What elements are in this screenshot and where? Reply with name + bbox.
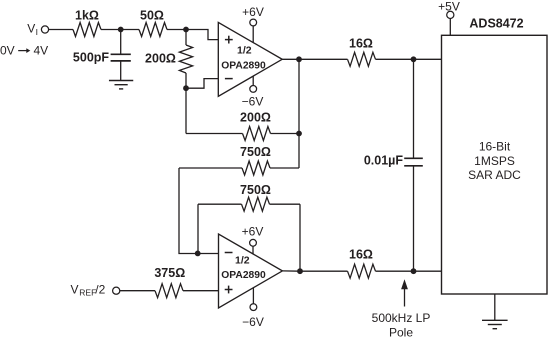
wire VI to R1	[49, 29, 73, 31]
wire R3 to node C	[185, 73, 187, 88]
wire R6 to right vertical	[270, 203, 301, 205]
label ADS8472	[469, 17, 523, 31]
wire U1b to -6V	[252, 288, 254, 304]
wire C2 to node J	[413, 166, 415, 271]
node F junction	[195, 251, 201, 257]
svg-text:50Ω: 50Ω	[140, 8, 164, 22]
capacitor C1 500pF	[111, 54, 131, 61]
U1b plus input mark	[225, 286, 233, 294]
label +6V U1a	[242, 5, 264, 19]
wire +6V to U1a	[252, 26, 254, 43]
svg-text:200Ω: 200Ω	[240, 110, 271, 124]
label VREF/2	[71, 282, 106, 297]
+5V terminal	[447, 11, 454, 18]
label U1b OPA2890	[221, 270, 266, 281]
node C junction	[183, 85, 189, 91]
svg-text:1kΩ: 1kΩ	[75, 8, 99, 22]
label 200&#937; feedback	[240, 110, 271, 124]
wire node D down	[298, 59, 300, 168]
svg-text:375Ω: 375Ω	[154, 266, 185, 280]
node A junction	[118, 27, 124, 33]
ground G1	[109, 81, 133, 89]
wire U1a output	[282, 58, 299, 60]
label 200&#937; shunt	[145, 52, 176, 66]
label 750&#937; lower	[240, 183, 271, 197]
node B junction	[183, 27, 189, 33]
label 16&#937; bottom	[349, 247, 373, 261]
svg-text:V: V	[71, 282, 79, 296]
U1a plus input mark	[225, 36, 233, 44]
ground G2	[482, 320, 508, 328]
wire node B to R3	[185, 30, 187, 46]
resistor R6 750&#937;	[242, 197, 270, 211]
label +6V U1b	[242, 224, 264, 238]
wire node C to opamp -	[186, 79, 218, 89]
op-amp U1a	[218, 22, 282, 96]
svg-text:−6V: −6V	[242, 315, 264, 329]
label 0V to 4V	[0, 44, 48, 58]
svg-text:1/2: 1/2	[235, 254, 250, 266]
label SAR ADC	[468, 168, 521, 182]
arrow 500kHz LP pole	[401, 279, 408, 306]
label 375&#937;	[154, 266, 185, 280]
wire node B to opamp +	[186, 30, 218, 40]
wire R5 to vertical	[270, 167, 299, 169]
svg-text:OPA2890: OPA2890	[221, 60, 266, 71]
wire node H to C2	[413, 59, 415, 158]
resistor R5 750&#937;	[242, 161, 270, 175]
U1a -6V terminal	[250, 86, 257, 93]
U1b minus input mark	[225, 252, 233, 254]
label 750&#937; upper	[240, 145, 271, 159]
svg-text:16Ω: 16Ω	[349, 247, 373, 261]
op-amp U1b	[219, 234, 283, 308]
node E junction	[296, 131, 302, 137]
node G junction U1b output	[297, 268, 303, 274]
label 500kHz LP	[372, 311, 431, 325]
svg-text:200Ω: 200Ω	[145, 52, 176, 66]
wire R8 to node H	[376, 58, 442, 60]
svg-text:V: V	[27, 22, 35, 36]
wire R6 left down to node F	[197, 204, 199, 253]
svg-text:500kHz LP: 500kHz LP	[372, 311, 431, 325]
svg-text:ADS8472: ADS8472	[469, 17, 523, 31]
label 0.01&#181;F	[364, 154, 404, 168]
svg-text:+6V: +6V	[242, 224, 264, 238]
capacitor C2 0.01uF	[404, 158, 423, 166]
svg-text:/2: /2	[95, 282, 105, 296]
label 1MSPS	[474, 154, 515, 168]
resistor R9 16&#937;	[348, 264, 376, 278]
svg-text:4V: 4V	[34, 44, 49, 58]
wire node C down	[185, 88, 187, 133]
input terminal VREF/2	[113, 287, 120, 294]
svg-text:I: I	[36, 27, 38, 37]
U1a minus input mark	[225, 78, 233, 80]
svg-text:0V: 0V	[0, 44, 15, 58]
label 50&#937;	[140, 8, 164, 22]
svg-text:OPA2890: OPA2890	[221, 270, 266, 281]
svg-text:0.01µF: 0.01µF	[364, 154, 404, 168]
wire U1b output	[282, 270, 300, 272]
label -6V U1b	[242, 315, 264, 329]
resistor R4 200&#937;	[243, 127, 271, 141]
label 1k&#937;	[75, 8, 99, 22]
resistor R2 50&#937;	[139, 23, 167, 37]
wire 750b left	[198, 203, 242, 205]
resistor R1 1k&#937;	[73, 23, 101, 37]
resistor R3 200&#937;	[179, 45, 192, 73]
node H junction	[411, 56, 417, 62]
label U1a 1/2	[237, 45, 252, 57]
wire node C2 to R4	[186, 133, 243, 135]
wire node G to R9	[300, 270, 348, 272]
svg-text:16-Bit: 16-Bit	[479, 140, 511, 154]
svg-text:Pole: Pole	[389, 326, 413, 338]
svg-text:REF: REF	[79, 288, 96, 298]
U1b +6V terminal	[250, 239, 257, 246]
wire node A to C1	[120, 30, 122, 55]
resistor R8 16&#937;	[348, 52, 376, 66]
svg-text:500pF: 500pF	[73, 51, 109, 65]
label U1a OPA2890	[221, 60, 266, 71]
resistor R7 375&#937;	[155, 284, 183, 298]
svg-text:750Ω: 750Ω	[240, 145, 271, 159]
wire R2 to node B	[167, 29, 186, 31]
wire R1 to node A	[101, 29, 139, 31]
wire ADC to ground	[494, 294, 496, 320]
label VI	[27, 22, 38, 37]
wire node D to R8	[299, 58, 348, 60]
label -6V U1a	[242, 95, 264, 109]
ADC U2 ADS8472 box	[442, 35, 548, 294]
wire R7 to U1b +	[183, 290, 219, 292]
svg-text:750Ω: 750Ω	[240, 183, 271, 197]
svg-text:1/2: 1/2	[237, 45, 252, 57]
label 16-Bit	[479, 140, 511, 154]
wire down to U1b minus	[179, 168, 219, 254]
label Pole	[389, 326, 413, 338]
wire R9 to node J	[376, 270, 442, 272]
node D junction U1a output	[296, 56, 302, 62]
input terminal VI	[41, 26, 48, 33]
svg-text:−6V: −6V	[242, 95, 264, 109]
label +5V	[438, 0, 460, 13]
wire +6V to U1b	[252, 246, 254, 254]
U1b -6V terminal	[250, 304, 257, 311]
wire +5V to ADC	[449, 19, 451, 36]
svg-text:+6V: +6V	[242, 5, 264, 19]
label U1b 1/2	[235, 254, 250, 266]
svg-text:SAR ADC: SAR ADC	[468, 168, 521, 182]
svg-text:1MSPS: 1MSPS	[474, 154, 515, 168]
wire R4 to node E	[271, 133, 300, 135]
wire VREF to R7	[120, 290, 155, 292]
label 500pF	[73, 51, 109, 65]
wire C1 to ground	[120, 61, 122, 81]
wire R6 right down to node G	[299, 204, 301, 271]
wire U1a to -6V	[252, 76, 254, 86]
node J junction	[411, 268, 417, 274]
U1a +6V terminal	[250, 19, 257, 26]
wire 750a left	[179, 167, 242, 169]
svg-text:16Ω: 16Ω	[349, 36, 373, 50]
label 16&#937; top	[349, 36, 373, 50]
